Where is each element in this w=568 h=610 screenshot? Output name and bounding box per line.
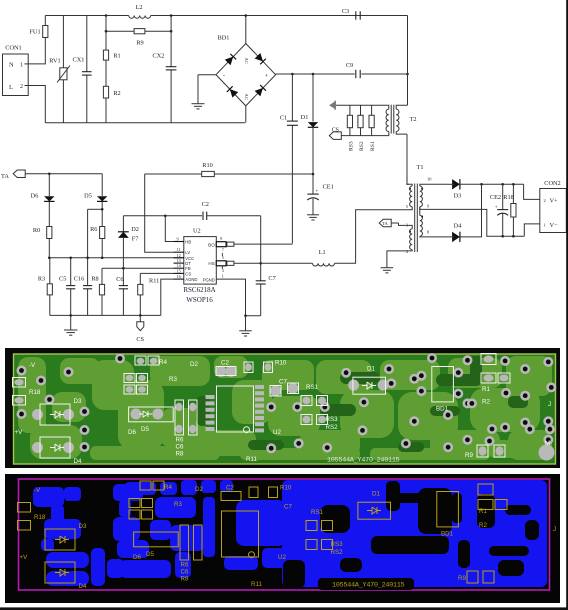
ground T1 — [381, 268, 394, 273]
frame bottom border — [0, 607, 568, 610]
svg-text:1: 1 — [20, 63, 23, 69]
svg-text:V+: V+ — [550, 198, 559, 205]
capacitor C6 — [116, 268, 128, 315]
svg-text:D5: D5 — [84, 193, 92, 200]
svg-text:7: 7 — [222, 248, 224, 253]
svg-text:R3: R3 — [38, 276, 45, 283]
wire top rail mid — [151, 15, 408, 17]
svg-text:RS3: RS3 — [326, 416, 339, 423]
yellow silkscreen outlines — [18, 481, 508, 583]
svg-text:D6: D6 — [128, 429, 136, 436]
svg-text:R6: R6 — [181, 562, 189, 569]
svg-text:R2: R2 — [479, 522, 487, 529]
svg-text:J: J — [548, 401, 551, 408]
wire C5 gnd stem — [70, 315, 72, 330]
resistor R0 — [33, 201, 52, 257]
svg-text:F7: F7 — [132, 235, 139, 242]
svg-text:R11: R11 — [246, 456, 257, 463]
resistor R6 — [90, 208, 105, 258]
svg-text:R8: R8 — [176, 451, 184, 458]
wire R9 rail — [105, 30, 173, 33]
bridge diode bottom-left — [227, 86, 238, 97]
svg-text:C6: C6 — [116, 276, 123, 283]
svg-text:8: 8 — [427, 230, 430, 235]
node R1 top — [105, 14, 108, 17]
U2 right pin labels — [203, 236, 224, 283]
wire R2 bottom — [105, 98, 107, 123]
svg-text:D1: D1 — [372, 491, 380, 498]
wire T1 pin4 to ground — [387, 251, 406, 268]
svg-text:RS1: RS1 — [311, 509, 324, 516]
PCB pads — [14, 353, 556, 461]
svg-text:D1: D1 — [301, 114, 309, 121]
ground PGND — [239, 316, 252, 336]
wire PGND — [216, 279, 260, 317]
resistor R18 — [503, 184, 516, 236]
svg-text:RS1: RS1 — [306, 384, 319, 391]
svg-text:R9: R9 — [465, 452, 473, 459]
svg-text:BD1: BD1 — [436, 406, 449, 413]
svg-text:N: N — [9, 62, 14, 69]
svg-text:R1: R1 — [482, 386, 490, 393]
transformer T2 — [386, 105, 417, 136]
svg-text:C2: C2 — [226, 485, 234, 492]
svg-text:D2: D2 — [131, 226, 139, 233]
capacitor C1 — [280, 74, 298, 244]
svg-text:D4: D4 — [454, 223, 463, 230]
svg-text:D4: D4 — [79, 583, 87, 590]
svg-text:R8: R8 — [91, 276, 98, 283]
wire fuse to top rail — [44, 16, 46, 26]
PCB board — [14, 354, 556, 464]
board outline magenta — [19, 479, 550, 590]
wire TA line — [25, 173, 102, 176]
svg-text:D6: D6 — [133, 554, 141, 561]
svg-text:C6: C6 — [176, 444, 184, 451]
U2 BO network — [216, 242, 292, 247]
svg-text:R18: R18 — [29, 389, 41, 396]
zener D2 F7 — [118, 216, 139, 268]
svg-text:5: 5 — [406, 204, 409, 209]
svg-text:R8: R8 — [181, 576, 189, 583]
fuse FU1 — [29, 26, 48, 38]
PCB silkscreen labels — [15, 359, 552, 465]
svg-text:15: 15 — [177, 268, 181, 273]
varistor RV1 — [49, 16, 70, 123]
wire RS bottom rail — [341, 135, 387, 137]
wire D4 anode — [426, 236, 450, 238]
tag TA left — [1, 170, 25, 180]
wire D3 out — [460, 183, 524, 186]
svg-text:D1: D1 — [367, 366, 375, 373]
svg-text:RS2: RS2 — [326, 424, 339, 431]
op-amp U2 body — [183, 228, 216, 305]
ground CE1 — [307, 215, 319, 220]
wire D4 out to V+ — [460, 184, 482, 237]
svg-text:9: 9 — [427, 204, 430, 209]
svg-text:WSOP16: WSOP16 — [186, 296, 213, 304]
svg-text:R10: R10 — [275, 360, 287, 367]
inductor L1 — [313, 249, 335, 266]
resistor RS1 — [369, 105, 376, 151]
copper view background — [5, 474, 560, 603]
svg-text:-V: -V — [34, 487, 41, 494]
wire bottom rail — [50, 314, 161, 317]
resistor RS3 — [347, 105, 354, 151]
svg-text:RV1: RV1 — [49, 58, 60, 65]
yellow silkscreen labels — [20, 484, 557, 590]
tag CS at T2 — [329, 128, 341, 140]
tag CS bottom — [136, 315, 144, 343]
capacitor C3 — [342, 8, 360, 20]
svg-text:D3: D3 — [74, 398, 82, 405]
capacitor C7 — [256, 275, 276, 316]
svg-text:RS2: RS2 — [331, 549, 344, 556]
svg-text:CX2: CX2 — [153, 53, 165, 60]
capacitor C2 — [165, 201, 260, 220]
svg-text:C2: C2 — [221, 360, 229, 367]
svg-text:12: 12 — [177, 253, 181, 258]
svg-text:2: 2 — [544, 198, 546, 203]
svg-text:R3: R3 — [169, 376, 177, 383]
bridge diode top-right — [255, 53, 266, 64]
wire bridge top — [245, 14, 248, 43]
svg-text:TA: TA — [1, 173, 9, 180]
svg-text:AC: AC — [244, 94, 249, 100]
svg-text:CON2: CON2 — [544, 180, 560, 187]
capacitor C16 — [74, 257, 92, 316]
svg-text:R1: R1 — [479, 508, 487, 515]
svg-text:L1: L1 — [319, 249, 326, 256]
diode D4 — [450, 223, 463, 243]
svg-text:R3: R3 — [174, 501, 182, 508]
svg-text:AC: AC — [244, 58, 249, 64]
svg-text:CS: CS — [136, 336, 144, 343]
capacitor CX1 — [73, 16, 92, 123]
svg-text:C3: C3 — [342, 8, 349, 15]
svg-text:RS3: RS3 — [348, 141, 354, 151]
svg-text:D2: D2 — [195, 486, 203, 493]
svg-text:L: L — [9, 84, 13, 91]
connector CON2 — [540, 180, 567, 233]
capacitor C5 — [59, 258, 75, 316]
wire R11 to CS pin — [140, 272, 173, 274]
PCB silkscreen outlines — [13, 354, 511, 459]
svg-text:HB: HB — [185, 240, 191, 245]
svg-text:R4: R4 — [159, 359, 167, 366]
svg-text:C6: C6 — [181, 569, 189, 576]
wire input bottom rail — [45, 122, 245, 124]
svg-text:C5: C5 — [59, 276, 66, 283]
svg-text:R9: R9 — [458, 575, 466, 582]
wire L1 to T1 pin5 — [335, 210, 407, 263]
svg-text:BO: BO — [208, 243, 215, 248]
svg-text:CE1: CE1 — [323, 184, 334, 191]
bridge BD1 outline — [216, 35, 276, 106]
svg-text:1: 1 — [222, 273, 224, 278]
svg-text:R2: R2 — [482, 399, 490, 406]
svg-text:RSC6218A: RSC6218A — [183, 286, 215, 294]
svg-text:T1: T1 — [417, 164, 424, 171]
svg-text:R11: R11 — [149, 278, 159, 285]
wire LV vertical — [145, 174, 174, 252]
svg-text:CX1: CX1 — [73, 57, 85, 64]
wire D3 anode — [426, 183, 450, 185]
svg-text:R10: R10 — [280, 485, 292, 492]
bridge diode top-left — [225, 54, 236, 65]
svg-text:D3: D3 — [79, 523, 87, 530]
diode D3 — [450, 179, 462, 199]
resistor R8 — [91, 276, 104, 316]
resistor R1 — [103, 50, 120, 60]
wire top rail left — [45, 15, 128, 17]
wire VCC rail — [48, 257, 184, 260]
svg-text:FU1: FU1 — [29, 29, 40, 36]
svg-text:J: J — [553, 526, 556, 533]
wire R1-R2 — [105, 60, 107, 86]
svg-text:C7: C7 — [268, 275, 275, 282]
resistor R2 — [103, 86, 120, 98]
svg-text:D4: D4 — [74, 458, 82, 465]
svg-text:2: 2 — [20, 84, 23, 90]
svg-text:9: 9 — [220, 236, 222, 241]
wire D2 top link — [123, 215, 165, 217]
resistor R11 — [138, 273, 160, 315]
svg-text:L2: L2 — [136, 4, 143, 11]
svg-text:R18: R18 — [503, 194, 514, 201]
diode D6 — [31, 174, 55, 202]
svg-text:C2: C2 — [202, 201, 209, 208]
svg-text:11: 11 — [177, 247, 181, 252]
svg-text:R6: R6 — [90, 226, 97, 233]
capacitor CX2 — [153, 14, 177, 123]
capacitor CE2 — [490, 184, 508, 236]
wire to CON2 V+ — [524, 184, 540, 199]
frame right border — [566, 0, 568, 610]
U2 left pins — [174, 237, 198, 283]
svg-text:D2: D2 — [190, 361, 198, 368]
wire CON1 pin1 to fuse — [28, 38, 45, 64]
resistor R9 — [134, 29, 145, 47]
ground C5 — [64, 330, 77, 335]
svg-text:TA: TA — [382, 221, 388, 226]
resistor R10 — [145, 162, 315, 177]
svg-text:D5: D5 — [141, 426, 149, 433]
wire bridge left to ground — [198, 75, 216, 104]
PCB copper traces — [18, 356, 552, 460]
diode D5 — [84, 174, 107, 202]
svg-text:U2: U2 — [193, 228, 201, 235]
wire FB rail — [102, 267, 174, 270]
svg-text:105544A_Y470_240115: 105544A_Y470_240115 — [332, 582, 405, 590]
wire CON1 pin2 down — [28, 86, 45, 123]
capacitor C9 — [346, 62, 360, 78]
svg-text:C16: C16 — [74, 276, 85, 283]
wire bridge bottom — [245, 106, 247, 123]
svg-text:R0: R0 — [33, 227, 40, 234]
svg-text:1: 1 — [544, 223, 546, 228]
transformer T1 — [406, 164, 432, 254]
svg-text:+V: +V — [20, 554, 29, 561]
resistor R3 — [38, 258, 53, 316]
svg-text:CE2: CE2 — [490, 194, 501, 201]
svg-text:R18: R18 — [34, 514, 46, 521]
svg-text:D5: D5 — [146, 551, 154, 558]
svg-text:T2: T2 — [410, 116, 417, 123]
connector CON1 — [3, 45, 29, 96]
svg-text:16: 16 — [177, 274, 181, 279]
inductor L2 — [129, 4, 151, 18]
svg-text:HS: HS — [208, 261, 214, 266]
diode D1 — [301, 74, 319, 194]
wire bridge+ rail — [276, 73, 409, 76]
svg-text:LV: LV — [185, 250, 190, 255]
svg-text:CS: CS — [332, 128, 339, 134]
svg-text:R10: R10 — [202, 162, 213, 169]
wire C2 to HS — [259, 216, 262, 281]
wire center tap — [426, 209, 524, 237]
svg-text:1: 1 — [406, 177, 408, 182]
svg-text:R6: R6 — [176, 437, 184, 444]
svg-text:VCC: VCC — [185, 256, 194, 261]
wire R8 drop — [101, 268, 103, 284]
svg-text:-V: -V — [29, 362, 36, 369]
svg-text:C7: C7 — [284, 504, 292, 511]
wire T2 to T1 — [407, 134, 409, 184]
svg-text:CON1: CON1 — [5, 45, 21, 52]
svg-text:U2: U2 — [273, 429, 281, 436]
ground bridge — [192, 104, 205, 109]
svg-text:105544A_Y470_240115: 105544A_Y470_240115 — [327, 457, 400, 465]
svg-text:D3: D3 — [454, 193, 462, 200]
U2 HS network — [216, 261, 312, 266]
PCB photo background — [5, 348, 560, 468]
svg-text:R1: R1 — [113, 53, 120, 60]
wire HB vertical — [164, 215, 174, 242]
wire R1 branch — [105, 16, 107, 51]
svg-text:C7: C7 — [279, 379, 287, 386]
svg-text:BD1: BD1 — [218, 35, 230, 42]
svg-text:PGND: PGND — [203, 278, 215, 283]
svg-text:RS3: RS3 — [331, 541, 344, 548]
capacitor CE1 — [307, 184, 334, 215]
svg-text:R9: R9 — [136, 40, 143, 47]
tag TA at T1 — [379, 219, 406, 227]
svg-text:R11: R11 — [251, 581, 262, 588]
svg-text:-: - — [223, 74, 225, 80]
svg-text:4: 4 — [406, 249, 409, 254]
wire right vertical C3-T2 — [407, 16, 409, 106]
svg-text:V−: V− — [550, 222, 559, 229]
svg-text:+V: +V — [15, 429, 24, 436]
svg-text:10: 10 — [427, 177, 432, 182]
svg-text:RS1: RS1 — [370, 141, 376, 151]
arrow net left — [329, 101, 387, 110]
svg-text:RS2: RS2 — [359, 141, 365, 151]
copper pours — [33, 480, 547, 587]
svg-text:C1: C1 — [280, 115, 287, 122]
svg-text:R2: R2 — [113, 90, 120, 97]
resistor RS2 — [358, 105, 365, 151]
wire AGND — [161, 279, 174, 315]
svg-text:AGND: AGND — [185, 277, 197, 282]
svg-text:R4: R4 — [164, 484, 172, 491]
svg-text:C9: C9 — [346, 62, 353, 69]
svg-text:U2: U2 — [278, 554, 286, 561]
svg-text:D6: D6 — [31, 193, 39, 200]
svg-text:CS: CS — [185, 271, 191, 276]
svg-text:+: + — [265, 74, 269, 80]
svg-text:M: M — [545, 440, 550, 447]
svg-text:BD1: BD1 — [441, 531, 454, 538]
svg-text:9: 9 — [177, 237, 179, 242]
wire to CON2 V- — [524, 224, 540, 236]
bridge diode bottom-right — [255, 85, 266, 96]
copper channels — [283, 481, 539, 590]
wire D5 jog to C16 — [88, 201, 103, 284]
